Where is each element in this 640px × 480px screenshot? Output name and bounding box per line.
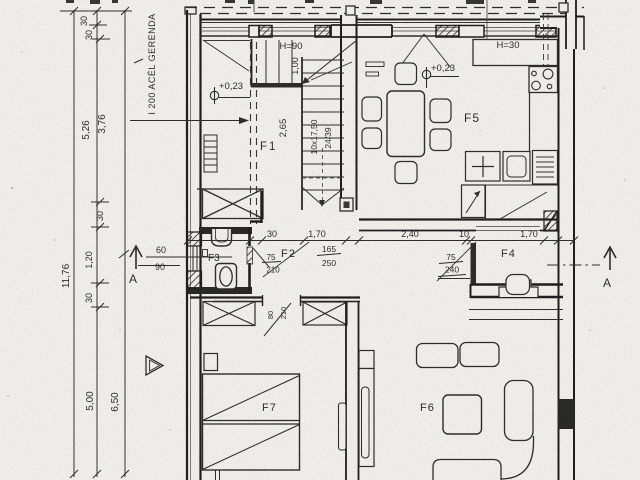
window pier white kitchen (459, 26, 484, 38)
F7 door jambs (263, 295, 301, 306)
kitchen door swing diagonal (500, 192, 547, 219)
dimension bottom ticks (70, 470, 129, 478)
entry dim 90 line (138, 265, 180, 267)
stair center dashed line (322, 148, 324, 203)
bed diagonal upper (203, 376, 300, 421)
bathroom bottom wall (188, 287, 252, 294)
chair bottom (395, 162, 417, 184)
balcony door sill step (499, 280, 538, 297)
pantry box with arrow (462, 185, 486, 218)
dining table (387, 91, 425, 157)
closet X left (203, 302, 255, 326)
wall W1 stair-kitchen fill (331, 24, 391, 37)
bathroom door leaf (247, 247, 253, 264)
sink stove unit (529, 67, 558, 93)
wall W2b band right (300, 296, 360, 298)
left wall hatched block upper (188, 232, 202, 246)
wall stub right of wardrobe (260, 191, 262, 223)
section arrow A left (135, 247, 137, 269)
stair upper run bottom sill dark (251, 83, 302, 88)
chair left 2 (362, 128, 382, 149)
chimney box on roof line (559, 3, 568, 12)
dishwasher box (466, 152, 501, 182)
small fixture mark (203, 250, 208, 257)
F1 window sill line (203, 40, 250, 42)
corridor dashed line right (256, 42, 258, 224)
dimension ticks y240 (184, 237, 578, 245)
wall W1 cross outline top (331, 25, 392, 37)
entry door lines (193, 246, 197, 271)
pier leader tick top (253, 0, 255, 12)
roof overhang dashed line upper (186, 7, 584, 9)
terrace step lines (469, 310, 563, 320)
right wall cross: vertical bar (566, 0, 576, 49)
window sill marks near wall W1 (366, 62, 384, 67)
left outer wall (187, 10, 201, 480)
chair right 2 (430, 129, 451, 151)
wall stub corner horizontal (250, 220, 263, 222)
wall W1 top cap box (346, 6, 355, 15)
top wall window glazing lines (202, 28, 557, 32)
door leader diagonal F2 (263, 242, 309, 277)
dimension header line (60, 7, 132, 15)
chair right 1 (430, 99, 451, 123)
right outer wall (559, 28, 575, 480)
stair upper run left edge (251, 39, 253, 87)
wall W2b band left (190, 296, 262, 298)
entry direction arrow (130, 120, 245, 122)
fridge lined box (533, 151, 558, 185)
nightstand on wall (204, 354, 218, 371)
left wall hatched block lower (188, 271, 202, 289)
wardrobe with X upper (197, 189, 263, 219)
toilet (216, 264, 237, 290)
dimension line vertical outer 11,76 (73, 10, 75, 477)
sofa cushion left (417, 344, 459, 368)
kitchen french door swing (399, 34, 451, 68)
wall W1 vertical (341, 15, 357, 210)
top wall second line (200, 22, 584, 24)
section line A-A right dashdot (547, 264, 600, 266)
leader horizontal F4 (438, 278, 470, 280)
level marker +0,23 F1 (210, 87, 250, 104)
top edge cut text fragments (66, 0, 536, 4)
corridor dashed line left (250, 42, 252, 224)
dimension tick y307 (91, 303, 109, 311)
flower pot on balcony (506, 275, 530, 295)
section arrow A right (609, 248, 611, 270)
sofa bottom part (433, 460, 501, 480)
F4 left wall dark (471, 243, 477, 285)
chair left 1 (362, 97, 382, 121)
flue corner dark (544, 211, 557, 231)
right wall black pier (558, 399, 575, 429)
right wall cross: end cap flange (583, 16, 585, 50)
bed middle double line (203, 420, 300, 422)
dimension tick y202 (91, 198, 109, 206)
kitchen bottom wall W2 (359, 220, 558, 231)
level marker +0,23 kitchen (422, 67, 430, 88)
F4 bottom wall (471, 285, 564, 298)
washbasin (212, 229, 232, 246)
dimension tick y25 (89, 21, 107, 29)
radiator F1 left wall (204, 135, 217, 172)
sofa corner curve (498, 436, 534, 479)
left wall corner box (185, 7, 196, 14)
window pier hatched 3 (436, 26, 459, 38)
stair break diagonal second (311, 62, 352, 80)
window pier hatched right (536, 26, 556, 38)
dimension tick y283 (91, 279, 109, 287)
radiator F7 side (339, 403, 347, 450)
bathroom top wall (199, 227, 252, 234)
stair main run treads (302, 60, 344, 190)
flue dashed lines (544, 14, 549, 68)
sofa tall part (505, 381, 534, 441)
level triangle marker (146, 356, 163, 375)
cabinet box with inner (503, 152, 530, 182)
entry dim 60 line (146, 256, 232, 258)
wall F7-F6 (346, 302, 359, 480)
dimension line vertical middle (96, 10, 98, 477)
pantry right edge (485, 185, 487, 219)
door niche F6 side tall box (359, 369, 374, 467)
door leader diagonal F4 (437, 242, 476, 281)
roof overhang dashed line lower (200, 13, 568, 15)
chair top (395, 63, 417, 85)
stair bottom box with symbol (340, 198, 353, 211)
closet X right (303, 302, 347, 325)
pantry shelf line (461, 184, 558, 186)
window pier hatched 2 (315, 26, 330, 38)
stair bottom V arrows (303, 188, 344, 205)
coffee table (443, 395, 482, 434)
bathroom right wall upper (248, 227, 251, 246)
dimension tick y39 (92, 35, 110, 43)
sofa cushion right (460, 343, 499, 367)
window pier white (249, 26, 259, 38)
dim leader vertical top kitchen (486, 0, 488, 60)
steel beam leader dash (134, 59, 143, 63)
dimension tick y227 (91, 223, 109, 231)
burners and sink circles (532, 69, 553, 90)
bed F7 outline (203, 374, 300, 470)
dimension line vertical inner (124, 10, 126, 477)
bathroom door swing (253, 248, 269, 267)
W2 door gap lines (476, 227, 540, 231)
right wall cross: horizontal band (540, 17, 584, 28)
bed diagonal lower (203, 425, 300, 470)
stub below bed (216, 470, 220, 480)
door leaf inside niche (362, 387, 370, 458)
F7 door leaf diagonal (264, 303, 291, 336)
top wall inner face (201, 35, 558, 37)
F1 window swing diagonal (203, 40, 249, 71)
kitchen counter top (473, 40, 558, 66)
stair upper run risers (266, 40, 292, 85)
window pier hatched 1 (259, 26, 272, 38)
top wall outer face (200, 19, 584, 21)
stair dashed landing line (302, 177, 344, 179)
door niche F6 side upper box (359, 351, 374, 369)
stair main run left edge (301, 57, 303, 210)
kitchen side band line (529, 93, 531, 152)
bathroom right wall lower (248, 263, 251, 291)
stair break diagonal with arrow (302, 40, 357, 84)
dimension tick on inner line y254 (119, 250, 129, 258)
main dimension line y240 (186, 240, 575, 242)
